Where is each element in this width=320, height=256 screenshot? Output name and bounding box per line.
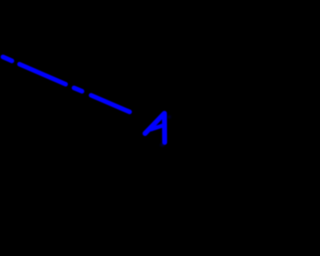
- node A label: stylized italic A legs: [145, 113, 165, 142]
- node A label: crossbar: [151, 125, 164, 129]
- faint artifact below right leg foot: [160, 144, 164, 147]
- wire: dash-dot blue line segment 1 (dot): [3, 57, 12, 61]
- wire: dash-dot blue line segment 3 (dot): [74, 88, 82, 91]
- wire: dash-dot blue line segment 4 (long dash, ends at point A): [91, 95, 130, 112]
- wire: dash-dot blue line segment 2 (long dash): [20, 64, 66, 84]
- faint artifact right of apex: [168, 116, 171, 119]
